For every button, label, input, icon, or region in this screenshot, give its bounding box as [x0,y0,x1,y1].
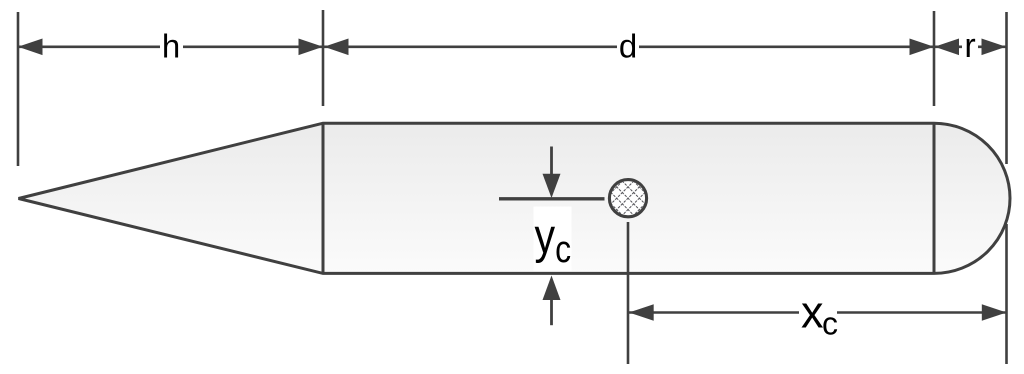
arrow r right [982,39,1007,56]
arrow d left [324,39,349,56]
svg-text:d: d [619,28,637,65]
centroid marker circle [609,180,646,217]
arrow xc left [629,304,654,321]
extension line right x=1006.5 upper [1005,12,1008,164]
dimension h line [18,45,160,48]
extension line left x=18 [17,12,20,166]
arrow h left [18,39,43,56]
arrow xc right [982,304,1007,321]
cone-body junction line [322,123,325,273]
arrow h right [299,39,324,56]
bullet body outline [19,123,1011,273]
extension line x=628 below centroid [627,222,630,364]
arrow r left [935,39,960,56]
arrow d right [910,39,935,56]
yc down arrow [550,147,553,176]
svg-text:h: h [162,28,180,65]
dimension xc line [628,311,799,314]
dimension r line [934,45,962,48]
yc centroid level line [499,197,605,200]
svg-text:r: r [964,27,975,65]
cap chord line [933,123,936,273]
yc up arrow [550,299,553,325]
yc label background [534,207,572,272]
extension line x=934 [933,11,936,106]
extension line right x=1006.5 lower [1005,224,1008,364]
dimension d line [323,45,617,48]
extension line x=323 [322,10,325,106]
